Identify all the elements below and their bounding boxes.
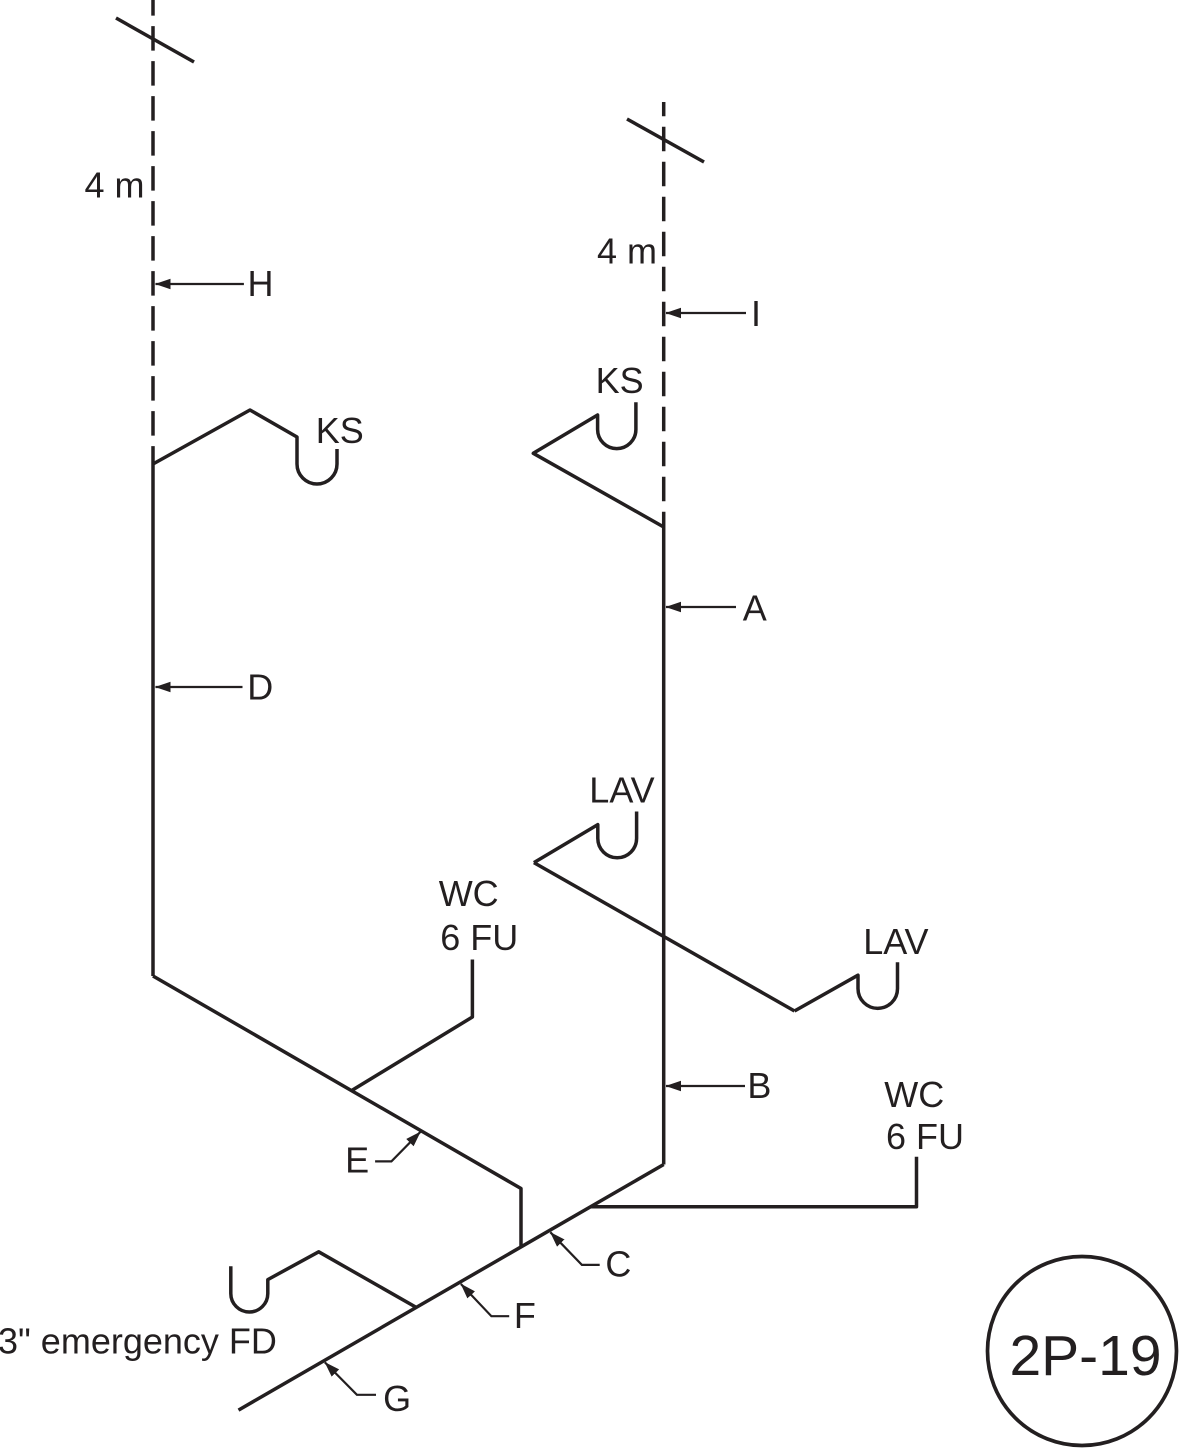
svg-text:6 FU: 6 FU [886,1116,964,1157]
svg-text:B: B [747,1065,771,1106]
svg-text:I: I [751,293,761,334]
svg-text:2P-19: 2P-19 [1009,1324,1161,1388]
svg-text:KS: KS [316,410,364,451]
svg-text:4 m: 4 m [597,231,657,272]
svg-text:LAV: LAV [589,770,654,811]
svg-text:4 m: 4 m [85,165,145,206]
svg-text:6 FU: 6 FU [440,917,518,958]
svg-text:C: C [605,1244,631,1285]
svg-text:A: A [743,587,767,628]
svg-text:KS: KS [596,360,644,401]
svg-text:LAV: LAV [863,921,928,962]
svg-text:F: F [514,1295,536,1336]
svg-text:WC: WC [439,873,499,914]
svg-text:D: D [247,667,273,708]
svg-text:WC: WC [884,1074,944,1115]
svg-text:G: G [383,1378,411,1419]
svg-text:E: E [345,1140,369,1181]
svg-text:H: H [248,263,274,304]
svg-text:3" emergency FD: 3" emergency FD [0,1321,277,1362]
